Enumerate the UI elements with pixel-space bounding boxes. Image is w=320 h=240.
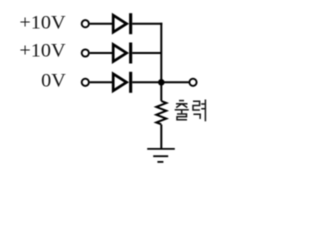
력 — [193, 101, 200, 110]
diode D1 — [113, 13, 132, 34]
svg-text:0V: 0V — [41, 71, 66, 92]
svg-text:+10V: +10V — [19, 13, 65, 34]
input terminal T3 — [82, 79, 89, 86]
wire T1 to D1 anode — [90, 23, 113, 25]
wire D3 cathode to output terminal — [132, 81, 189, 83]
label 출력 (output) — [175, 100, 206, 122]
wire resistor to ground — [160, 125, 162, 150]
svg-text:+10V: +10V — [19, 41, 65, 62]
junction node — [158, 79, 165, 86]
input terminal T2 — [82, 49, 89, 56]
출 — [179, 100, 184, 102]
resistor R1 — [156, 101, 166, 124]
wire D1 cathode to bus — [132, 23, 162, 25]
wire T2 to D2 anode — [90, 52, 113, 54]
bus wire (vertical) — [160, 23, 162, 101]
wire T3 to D3 anode — [90, 81, 113, 83]
output terminal — [189, 79, 196, 86]
diode D3 — [113, 72, 132, 93]
diode D2 — [113, 43, 132, 64]
wire D2 cathode to bus — [132, 52, 161, 54]
input terminal T1 — [82, 20, 89, 27]
ground — [147, 149, 175, 162]
